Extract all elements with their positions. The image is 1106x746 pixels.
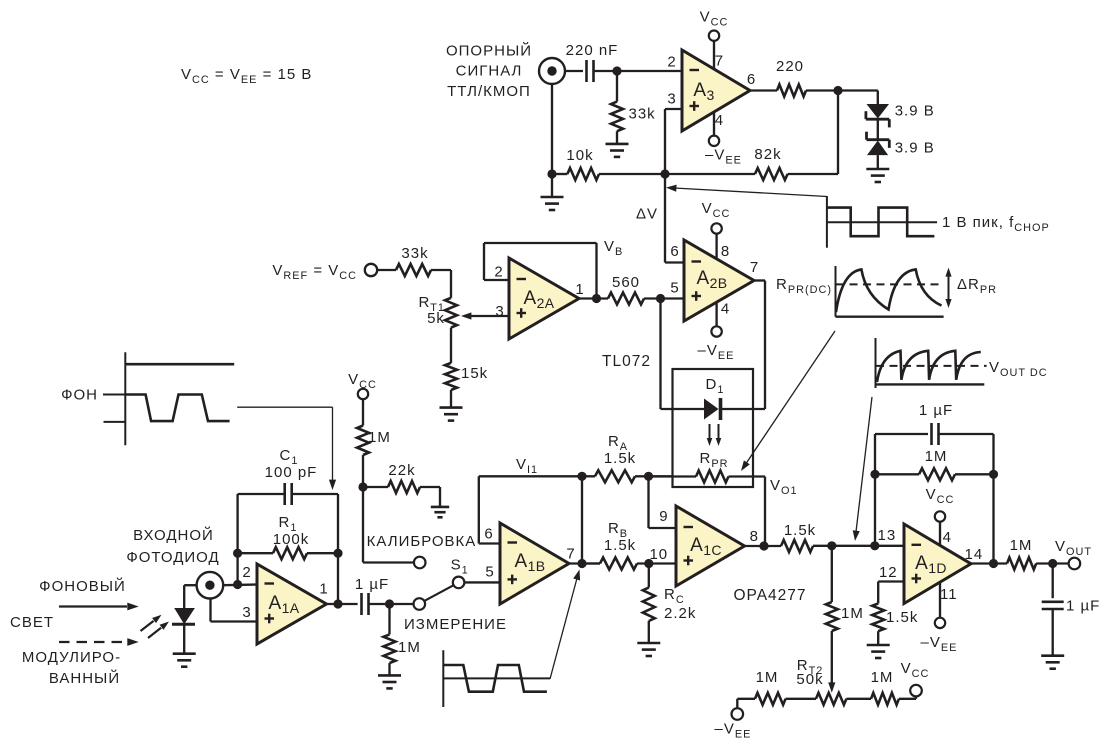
svg-text:1 µF: 1 µF <box>355 576 389 593</box>
node <box>989 470 998 479</box>
resistor 560 <box>608 274 684 305</box>
svg-text:1.5k: 1.5k <box>604 450 636 467</box>
pin 1 label <box>319 581 328 598</box>
wire A3 out <box>750 89 777 91</box>
svg-text:1M: 1M <box>398 639 421 656</box>
potentiometer RT2 50k <box>796 657 846 705</box>
pin 6 label <box>747 71 756 88</box>
delta RPR arrow <box>945 268 997 308</box>
Vcc supply A1D <box>926 486 955 522</box>
node <box>333 549 342 558</box>
svg-text:1M: 1M <box>756 669 779 686</box>
svg-text:11: 11 <box>940 586 958 603</box>
pin 6 label <box>670 243 679 260</box>
resistor 1.5k (output) <box>781 522 904 552</box>
pin 11 label <box>940 586 958 603</box>
wire A1A out <box>327 603 358 605</box>
svg-text:3: 3 <box>242 604 251 621</box>
node <box>333 599 342 608</box>
terminal measure <box>404 598 507 633</box>
resistor R1 100k <box>238 514 338 559</box>
ground <box>378 675 401 688</box>
node <box>592 294 601 303</box>
svg-text:ВАННЫЙ: ВАННЫЙ <box>49 669 120 687</box>
capacitor C1 100 pF <box>265 447 318 505</box>
op-amp A1C <box>676 506 745 586</box>
op-amp A1B <box>500 523 569 604</box>
-Vee supply A1D <box>921 618 958 654</box>
resistor 33k (Vref) <box>377 245 451 276</box>
node <box>612 66 621 75</box>
diode D1 <box>704 376 724 420</box>
svg-text:2: 2 <box>667 54 676 71</box>
node <box>656 294 665 303</box>
node <box>233 549 242 558</box>
pin 10 label <box>649 546 668 563</box>
pin 4 label <box>943 529 952 546</box>
svg-text:10: 10 <box>649 546 668 563</box>
svg-text:100 pF: 100 pF <box>265 464 318 481</box>
dashed arrow modulated light <box>59 638 139 646</box>
svg-text:МОДУЛИРО-: МОДУЛИРО- <box>22 649 121 666</box>
svg-text:ТТЛ/КМОП: ТТЛ/КМОП <box>447 83 531 100</box>
photodiode input connector <box>197 572 224 599</box>
wire LED loop right <box>721 281 766 410</box>
svg-text:OPA4277: OPA4277 <box>733 587 806 604</box>
pin 8 label <box>750 528 759 545</box>
resistor 22k <box>363 462 440 507</box>
capacitor 1 uF (feedback) <box>919 402 953 445</box>
op-amp A3 <box>682 41 750 136</box>
feedback rail left <box>238 494 285 585</box>
svg-text:ИЗМЕРЕНИЕ: ИЗМЕРЕНИЕ <box>404 616 507 633</box>
resistor 82k <box>665 146 838 180</box>
op-amp A2A <box>509 258 579 339</box>
svg-text:5: 5 <box>670 280 679 297</box>
label TL072 <box>602 353 651 370</box>
svg-text:1M: 1M <box>368 429 391 446</box>
svg-text:TL072: TL072 <box>602 353 651 370</box>
annotation arrow to RPR <box>741 331 835 471</box>
svg-text:9: 9 <box>659 508 668 525</box>
label modulated <box>22 649 121 687</box>
label VB <box>604 238 623 258</box>
svg-text:КАЛИБРОВКА: КАЛИБРОВКА <box>367 533 477 550</box>
Vcc supply A2B <box>702 200 731 234</box>
svg-text:33k: 33k <box>401 245 428 262</box>
pin 4 label <box>715 112 724 129</box>
svg-text:ФОНОВЫЙ: ФОНОВЫЙ <box>39 577 126 595</box>
svg-text:1: 1 <box>319 581 328 598</box>
pin 1 label <box>575 281 584 298</box>
-Vee supply A2B <box>698 326 735 362</box>
svg-text:6: 6 <box>747 71 756 88</box>
wire A1C out <box>745 545 782 547</box>
light arrows <box>141 615 170 638</box>
terminal Vref = Vcc <box>272 262 377 282</box>
wire <box>877 155 879 169</box>
resistor 1M (feedback) <box>875 448 994 480</box>
svg-text:1: 1 <box>575 281 584 298</box>
resistor 1M (right) <box>846 669 916 705</box>
annotation arrow to dV node <box>666 185 827 197</box>
label VI1 <box>516 456 538 476</box>
wire pin2 A1A <box>223 583 257 586</box>
pin 8 label <box>721 243 730 260</box>
ground <box>541 174 564 210</box>
figure chopper square wave <box>827 196 1050 248</box>
svg-text:1.5k: 1.5k <box>784 522 816 539</box>
pin 4 label <box>721 301 730 318</box>
svg-text:50k: 50k <box>796 671 823 688</box>
wire LED loop left <box>661 299 705 410</box>
svg-text:10k: 10k <box>566 147 593 164</box>
pin 3 label <box>667 91 676 108</box>
node <box>233 580 242 589</box>
svg-text:15k: 15k <box>461 365 488 382</box>
resistor 1M (to Vcc) <box>357 399 391 487</box>
wire A2B pin6 <box>665 174 684 263</box>
pin 3 label <box>242 604 251 621</box>
wire pin9 <box>649 476 677 528</box>
wire <box>837 91 839 175</box>
op-amp A1A <box>257 564 327 644</box>
wire <box>369 603 414 605</box>
svg-text:14: 14 <box>965 546 984 563</box>
svg-text:7: 7 <box>715 53 724 70</box>
svg-text:1 µF: 1 µF <box>1066 598 1100 615</box>
svg-text:1.5k: 1.5k <box>886 609 918 626</box>
svg-text:1 µF: 1 µF <box>919 402 953 419</box>
wire <box>565 70 583 72</box>
svg-text:220 nF: 220 nF <box>566 42 619 59</box>
pin 7 label <box>715 53 724 70</box>
pin 5 label <box>670 280 679 297</box>
wire pin3 A1A <box>211 599 258 622</box>
feedback wire A2A (VB) <box>484 243 597 299</box>
feedback rail left A1D <box>875 434 928 546</box>
node <box>989 559 998 568</box>
node <box>827 541 836 550</box>
svg-text:3: 3 <box>495 303 504 320</box>
potentiometer RT1 5k <box>418 294 509 328</box>
wire <box>292 493 338 495</box>
svg-text:560: 560 <box>612 274 640 291</box>
label input photodiode <box>126 526 219 566</box>
ground <box>866 169 889 182</box>
-Vee supply A3 <box>705 136 742 167</box>
svg-text:82k: 82k <box>754 146 781 163</box>
wire <box>806 91 878 105</box>
photodiode <box>172 608 195 654</box>
svg-text:3.9 В: 3.9 В <box>895 103 935 120</box>
label Vo1 <box>770 477 798 497</box>
resistor RC 2.2k <box>643 564 697 644</box>
pin 6 label <box>484 526 493 543</box>
svg-text:8: 8 <box>721 243 730 260</box>
feedback wire A1B (VI1) <box>479 476 582 543</box>
ground <box>440 408 463 421</box>
resistor 33k <box>611 71 656 144</box>
wire <box>581 476 583 563</box>
wire <box>184 585 196 608</box>
svg-text:ФОТОДИОД: ФОТОДИОД <box>126 549 219 566</box>
resistor 1M (pulldown) <box>384 604 421 675</box>
node <box>1048 559 1057 568</box>
wire <box>363 487 414 563</box>
svg-text:ФОН: ФОН <box>61 387 98 404</box>
zener D 3.9V lower <box>867 132 935 157</box>
svg-text:7: 7 <box>750 259 759 276</box>
ground <box>1041 656 1064 669</box>
svg-text:33k: 33k <box>629 106 656 123</box>
resistor 220 <box>776 58 806 97</box>
pin 2 label <box>242 564 251 581</box>
ground <box>431 507 449 517</box>
svg-text:ΔV: ΔV <box>636 206 658 223</box>
resistor RA 1.5k <box>582 433 673 482</box>
node <box>547 169 556 178</box>
svg-text:12: 12 <box>879 564 898 581</box>
label OPA4277 <box>733 587 806 604</box>
node <box>577 559 586 568</box>
resistor 1M (output) <box>1007 537 1069 570</box>
node dV <box>660 169 669 178</box>
svg-text:1M: 1M <box>1010 537 1033 554</box>
svg-text:4: 4 <box>943 529 952 546</box>
figure RPR(DC) waveform <box>776 266 944 317</box>
figure Vout DC waveform <box>876 338 1048 388</box>
wire A3 pin3 <box>665 109 682 174</box>
capacitor 220 nF <box>566 42 619 82</box>
svg-text:3.9 В: 3.9 В <box>895 140 935 157</box>
feedback rail right <box>337 494 339 604</box>
note Vcc = Vee = 15V <box>181 66 312 86</box>
svg-text:100k: 100k <box>273 531 310 548</box>
pin 7 label <box>750 259 759 276</box>
figure background (FON) waveform <box>61 352 234 445</box>
LED arrows <box>707 424 722 446</box>
annotation arrow to A1D input wire <box>853 397 872 541</box>
resistor 1M (to RT2) <box>826 546 864 631</box>
wire <box>465 581 500 583</box>
node <box>577 472 586 481</box>
svg-text:1M: 1M <box>925 448 948 465</box>
resistor RB 1.5k <box>582 520 676 570</box>
wire <box>450 270 452 298</box>
node <box>358 482 367 491</box>
wire Vo1 <box>764 477 766 547</box>
input connector (reference signal) <box>539 58 565 84</box>
pin 7 label <box>566 546 575 563</box>
node <box>385 599 394 608</box>
pin 2 label <box>494 264 503 281</box>
node <box>644 559 653 568</box>
capacitor 1 uF (output) <box>1042 564 1101 656</box>
svg-text:8: 8 <box>750 528 759 545</box>
Vcc supply (calibration) <box>348 371 377 399</box>
capacitor 1 uF (coupling) <box>355 576 389 615</box>
pin 5 label <box>485 564 494 581</box>
wire <box>939 433 994 435</box>
wire <box>551 84 553 174</box>
resistor 15k <box>445 328 488 408</box>
node <box>644 472 653 481</box>
feedback rail right A1D <box>992 434 994 564</box>
pin 12 label <box>879 564 898 581</box>
Vcc supply A3 <box>700 9 729 41</box>
ground <box>637 643 660 656</box>
resistor 10k <box>552 147 665 180</box>
svg-text:6: 6 <box>670 243 679 260</box>
solid arrow background light <box>59 603 139 611</box>
wire <box>877 119 879 140</box>
terminal calibration <box>367 533 477 568</box>
ground <box>867 645 890 658</box>
op-amp A1D <box>904 522 971 618</box>
op-amp A2B <box>684 234 754 327</box>
ground <box>606 144 629 157</box>
node <box>759 541 768 550</box>
pin 2 label <box>667 54 676 71</box>
svg-text:22k: 22k <box>388 462 415 479</box>
svg-text:2: 2 <box>242 564 251 581</box>
wire A1D out <box>971 562 1007 564</box>
svg-text:1.5k: 1.5k <box>604 537 636 554</box>
svg-text:СВЕТ: СВЕТ <box>10 614 54 631</box>
label background light <box>10 577 126 631</box>
figure measured waveform <box>443 650 550 707</box>
resistor 1M (left) <box>737 669 816 709</box>
svg-text:13: 13 <box>878 527 897 544</box>
label dV <box>636 206 658 223</box>
svg-text:ВХОДНОЙ: ВХОДНОЙ <box>133 526 214 544</box>
wire pin12 <box>878 582 904 604</box>
wiper arrow RT2 <box>828 631 835 693</box>
svg-text:5k: 5k <box>427 310 445 327</box>
wire A1B out <box>569 562 600 564</box>
pin 9 label <box>659 508 668 525</box>
svg-text:1M: 1M <box>841 605 864 622</box>
label reference signal TTL/CMOS <box>446 42 532 100</box>
svg-text:7: 7 <box>566 546 575 563</box>
node <box>870 470 879 479</box>
zener D 3.9V upper <box>866 103 935 128</box>
optocoupler box <box>673 369 754 487</box>
photoresistor RPR <box>649 471 766 483</box>
svg-text:220: 220 <box>776 58 804 75</box>
svg-text:2: 2 <box>494 264 503 281</box>
svg-text:4: 4 <box>721 301 730 318</box>
annotation arrow to A1B out <box>550 570 580 680</box>
svg-text:5: 5 <box>485 564 494 581</box>
pin 14 label <box>965 546 984 563</box>
terminal Vout <box>1055 538 1092 569</box>
node <box>870 541 879 550</box>
svg-text:6: 6 <box>484 526 493 543</box>
resistor 1.5k (pin12) <box>872 604 918 646</box>
svg-text:ОПОРНЫЙ: ОПОРНЫЙ <box>446 42 532 60</box>
svg-text:СИГНАЛ: СИГНАЛ <box>456 63 523 80</box>
wire A2A out <box>579 297 608 299</box>
svg-text:2.2k: 2.2k <box>664 605 696 622</box>
svg-text:4: 4 <box>715 112 724 129</box>
label RPR <box>700 450 729 470</box>
pin 13 label <box>878 527 897 544</box>
svg-text:1M: 1M <box>871 669 894 686</box>
switch S1 <box>425 556 469 600</box>
wire <box>594 70 683 72</box>
pin 3 label <box>495 303 504 320</box>
annotation line FON to C1 <box>237 407 336 490</box>
terminal -Vee <box>715 708 752 740</box>
node <box>833 86 842 95</box>
ground <box>173 654 196 667</box>
terminal Vcc <box>901 660 930 696</box>
svg-text:3: 3 <box>667 91 676 108</box>
